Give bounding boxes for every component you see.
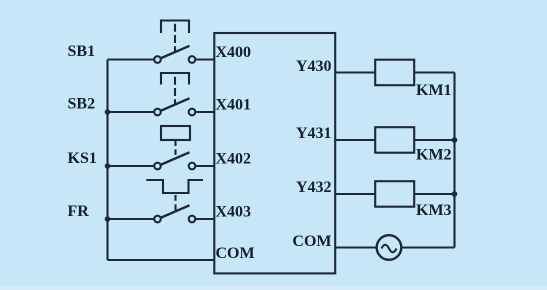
- svg-text:Y431: Y431: [296, 125, 332, 142]
- wire FR left segment: [108, 218, 154, 220]
- wire KS1 right segment to X402: [196, 165, 215, 167]
- SB1 plunger dashed link: [174, 24, 176, 53]
- wire SB1 left segment: [108, 58, 154, 60]
- svg-text:KM3: KM3: [416, 202, 452, 219]
- svg-text:Y432: Y432: [296, 179, 332, 196]
- coil KM3: [375, 181, 414, 207]
- wire right rail vertical: [453, 73, 455, 248]
- wire Y432 to KM3: [335, 193, 375, 195]
- switch SB2 contact: [154, 109, 161, 116]
- AC source G1: [377, 235, 402, 260]
- svg-text:X401: X401: [216, 97, 252, 114]
- svg-text:KM2: KM2: [416, 147, 452, 164]
- KS1 dashed link: [174, 141, 176, 157]
- switch KS1 contact: [154, 163, 161, 170]
- pushbutton SB2 actuator cap: [161, 73, 189, 85]
- junction dot KS1: [105, 163, 111, 169]
- svg-text:FR: FR: [68, 203, 90, 220]
- svg-text:X400: X400: [216, 44, 252, 61]
- svg-text:COM: COM: [216, 245, 255, 262]
- svg-text:SB1: SB1: [68, 43, 96, 60]
- svg-text:X403: X403: [216, 204, 252, 221]
- PLC box U1: [214, 33, 335, 273]
- thermal relay FR operator: [146, 180, 203, 193]
- FR dashed link: [174, 195, 176, 211]
- junction dot KM3 rail: [452, 191, 458, 197]
- svg-text:KM1: KM1: [416, 82, 452, 99]
- wire KM3 to right rail: [414, 193, 454, 195]
- wire SB1 right segment to X400: [196, 58, 215, 60]
- wire KS1 left segment: [108, 165, 154, 167]
- junction dot KM2 rail: [452, 137, 458, 143]
- wire Y431 to KM2: [335, 139, 375, 141]
- pushbutton SB1 actuator cap: [161, 21, 189, 34]
- wire KM1 to right rail: [414, 71, 454, 73]
- junction dot SB2: [105, 109, 111, 115]
- wire bottom COM segment: [108, 259, 215, 261]
- switch SB1 contact: [154, 56, 161, 63]
- wire AC source to right rail: [401, 246, 454, 248]
- coil KM2: [375, 127, 414, 153]
- svg-text:SB2: SB2: [68, 96, 96, 113]
- switch FR contact: [154, 216, 161, 223]
- wire KM2 to right rail: [414, 139, 454, 141]
- wire SB2 right segment to X401: [196, 111, 215, 113]
- SB2 plunger dashed link: [174, 77, 176, 105]
- relay KS1 operator box: [161, 126, 190, 140]
- svg-text:Y430: Y430: [296, 58, 332, 75]
- svg-text:COM: COM: [292, 233, 331, 250]
- svg-text:KS1: KS1: [68, 150, 97, 167]
- wire Y430 to KM1: [335, 71, 375, 73]
- wire FR right segment to X403: [196, 218, 215, 220]
- coil KM1: [375, 60, 414, 85]
- wire COM to AC source: [335, 246, 376, 248]
- wire left rail vertical: [106, 60, 108, 261]
- wire SB2 left segment: [108, 111, 154, 113]
- junction dot FR: [105, 216, 111, 222]
- svg-text:X402: X402: [216, 151, 252, 168]
